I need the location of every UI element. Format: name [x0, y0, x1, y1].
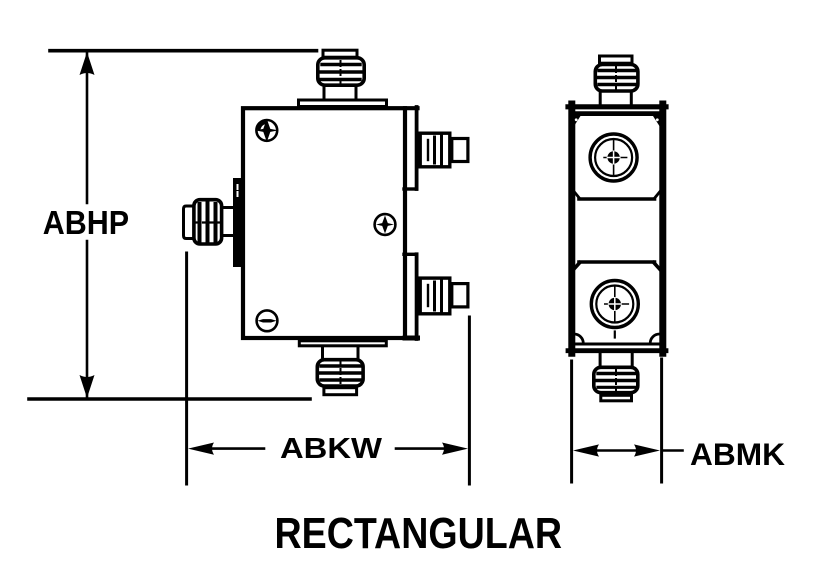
svg-text:ABMK: ABMK	[690, 436, 785, 472]
svg-text:RECTANGULAR: RECTANGULAR	[275, 510, 563, 558]
svg-text:ABHP: ABHP	[43, 204, 129, 241]
svg-text:ABKW: ABKW	[280, 433, 383, 465]
